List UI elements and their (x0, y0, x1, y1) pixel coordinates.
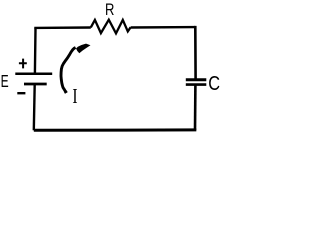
svg-text:R: R (105, 1, 114, 19)
wire: left-top segment (battery plus plate up to top-left corner) (34, 28, 37, 74)
resistor R zigzag (91, 20, 131, 34)
current arrow tail thick tip (64, 91, 68, 93)
svg-text:I: I (72, 84, 77, 108)
svg-text:E: E (1, 71, 9, 91)
capacitor C bottom plate (186, 83, 207, 86)
svg-text:C: C (208, 73, 220, 95)
current arrowhead (76, 44, 91, 54)
battery E long plate (positive) (15, 72, 52, 75)
wire: right-bottom segment (capacitor down to bottom-right corner) (194, 85, 197, 130)
minus sign (17, 92, 25, 94)
capacitor C top plate (186, 78, 207, 81)
plus sign (19, 59, 27, 69)
battery E short plate (negative) (24, 83, 47, 86)
current arrow arc (61, 48, 76, 93)
wire: top segment left of resistor (34, 26, 91, 29)
wire: left-bottom segment (battery minus plate down to bottom-left corner) (33, 84, 36, 130)
wire: right-top segment (top-right corner down to capacitor) (194, 26, 197, 80)
wire: bottom segment (34, 128, 197, 131)
wire: top segment right of resistor (131, 26, 196, 29)
